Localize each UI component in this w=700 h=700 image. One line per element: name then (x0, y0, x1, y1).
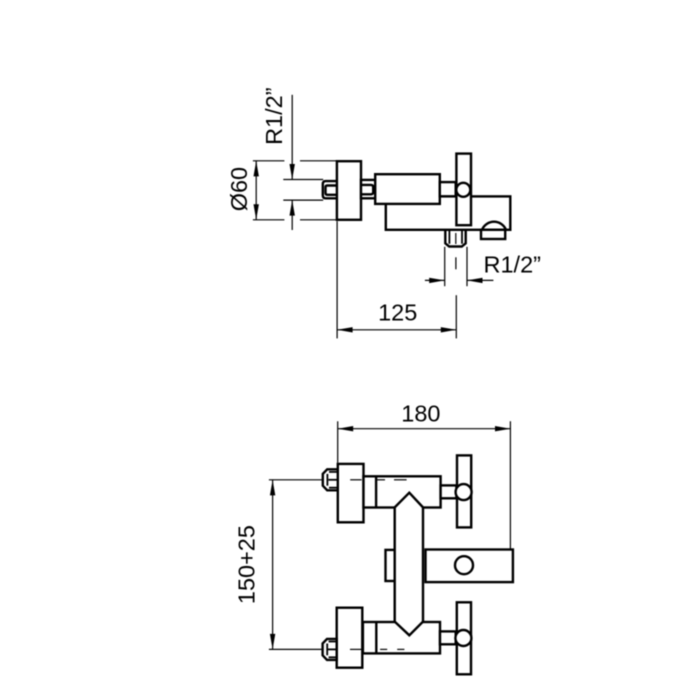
cross handle bar (side view) (456, 154, 471, 226)
handle stem (side view) (440, 182, 456, 196)
top valve body (364, 476, 441, 507)
spout aerator rectangle (481, 230, 505, 239)
svg-text:R1/2”: R1/2” (261, 87, 287, 144)
bottom handle hub circle (455, 630, 471, 646)
valve body (side view) (375, 174, 440, 204)
svg-text:R1/2”: R1/2” (484, 252, 541, 278)
bottom valve escutcheon (337, 608, 363, 668)
dim 125 extension lines (337, 221, 456, 338)
bottom inlet centerline (269, 648, 405, 650)
top handle stem (441, 485, 457, 498)
top inlet centerline (269, 479, 407, 481)
svg-text:125: 125 (378, 299, 417, 325)
top eccentric union nut (323, 469, 338, 490)
inlet hex nut (side view) (323, 181, 337, 198)
top valve escutcheon (338, 464, 364, 522)
wall flange (side view) (337, 161, 361, 220)
dim R1/2 outlet arrows (425, 278, 494, 283)
spout housing (lower body, side view) (386, 196, 511, 229)
dim 180 extension lines (338, 421, 511, 549)
dim R1/2 inlet leader (top) (283, 95, 323, 230)
label R1/2" (top) (261, 87, 287, 144)
label 125 (378, 299, 417, 325)
spout nose dome arc (482, 222, 506, 230)
connector ring between flange and body (361, 180, 375, 198)
dim Ø60 line with arrows (254, 161, 259, 220)
tub spout (front view) (426, 550, 513, 583)
label R1/2" (outlet) (484, 252, 541, 278)
svg-text:150+25: 150+25 (234, 525, 260, 604)
diverter tab (left of column) (386, 550, 395, 581)
dim R1/2 outlet extension lines (445, 247, 467, 286)
handle hub circle (side view) (456, 183, 470, 197)
bottom valve body (363, 622, 440, 653)
outlet centerline tick (455, 257, 457, 269)
bottom handle stem (440, 631, 456, 644)
label Ø60 (226, 167, 252, 211)
svg-text:180: 180 (401, 401, 440, 427)
label 150+25 (234, 525, 260, 604)
svg-text:Ø60: Ø60 (226, 167, 252, 211)
bottom eccentric union nut (323, 639, 337, 660)
central column (395, 493, 423, 636)
top handle hub circle (456, 484, 472, 500)
bottom cross handle bar (front view) (457, 602, 471, 674)
dim 150+25 line with arrows (270, 480, 275, 650)
dim Ø60 extension lines (253, 161, 337, 220)
label 180 (401, 401, 440, 427)
outlet nut (hand-shower connection) (445, 230, 465, 247)
dim 125 line with arrows (337, 327, 456, 332)
dim 180 line with arrows (338, 426, 511, 431)
top cross handle bar (front view) (457, 455, 471, 527)
